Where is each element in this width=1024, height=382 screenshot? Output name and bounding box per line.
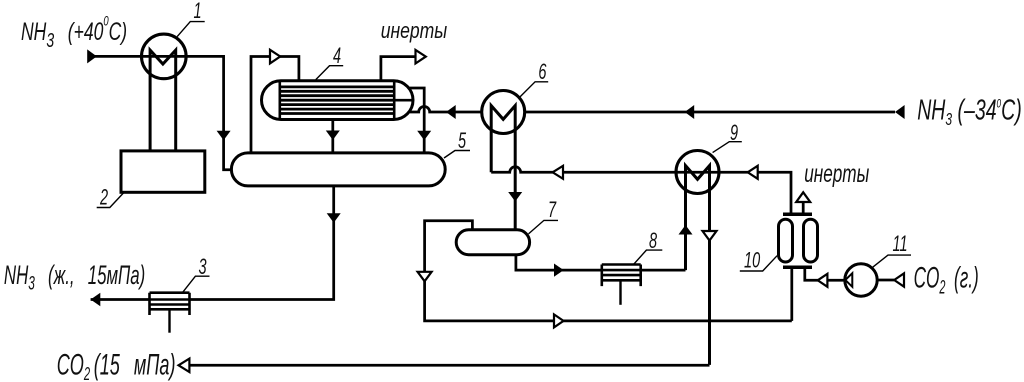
leader label 5 — [444, 151, 470, 159]
flow arrow open up inerts — [796, 192, 810, 202]
compressor 11 inner triangle — [845, 273, 852, 287]
svg-text:NH3 (–340C): NH3 (–340C) — [917, 95, 1022, 130]
wire flash drum 7 top loop to bottom recycle — [425, 221, 792, 321]
heat exchanger 6 circle — [482, 91, 525, 134]
condenser 4 right cap split line — [394, 99, 413, 102]
wire inerts stub on column 10 — [802, 202, 805, 214]
svg-text:11: 11 — [893, 231, 908, 256]
leader label 9 — [713, 142, 742, 153]
flow arrow filled down condenser to separator — [326, 131, 340, 141]
reducer 8 body — [602, 265, 641, 287]
wire NH3 -34C line from condenser 4 with hop over vertical — [410, 107, 482, 113]
flow arrow open right on bottom recycle — [554, 314, 564, 327]
flow arrow open down on loop — [418, 272, 432, 282]
svg-text:8: 8 — [649, 228, 658, 253]
condenser 4 left tube sheet — [278, 81, 281, 120]
flow arrow filled left mid NH3 line — [685, 105, 695, 119]
wire recycle line y172 from exchanger 6 elbow to column 10 with hop — [491, 167, 791, 215]
adsorber column 10 left capsule — [779, 219, 793, 262]
leader label 3 — [182, 276, 209, 293]
compressor 11 circle — [845, 264, 877, 296]
heat exchanger 6 coil M with legs — [491, 106, 515, 230]
tank 2 — [121, 151, 205, 192]
svg-text:инерты: инерты — [804, 159, 869, 188]
svg-text:CO2 (15 мПа): CO2 (15 мПа) — [57, 349, 176, 382]
leader label 8 — [634, 250, 663, 264]
svg-text:9: 9 — [730, 120, 738, 145]
flow arrow open left CO2 inlet — [894, 273, 904, 286]
wire through heat exchanger 1 to right elbow — [142, 56, 232, 169]
svg-text:1: 1 — [194, 0, 202, 23]
leader label 7 — [529, 220, 559, 234]
position number texts — [99, 0, 907, 279]
wire separator 5 bottom to reducer 3 — [190, 186, 334, 300]
flow arrow filled left into condenser 4 — [446, 105, 456, 119]
leader label 4 — [316, 66, 343, 80]
flow arrow filled down into flash drum 7 — [508, 192, 522, 202]
svg-text:6: 6 — [538, 59, 547, 84]
flow arrow open left into exchanger 9 — [748, 166, 758, 179]
svg-text:4: 4 — [333, 43, 341, 68]
heat exchanger 9 circle — [676, 151, 719, 194]
leader label 10 — [740, 256, 777, 271]
flow arrow open down from exchanger 9 — [703, 231, 717, 241]
wire CO2 gas inlet — [877, 279, 894, 282]
leader label 6 — [520, 82, 548, 97]
svg-text:7: 7 — [548, 197, 557, 222]
leader label 2 — [97, 192, 124, 207]
reducer 3 body — [150, 293, 190, 315]
flow arrow filled left at NH3 -34C label — [895, 105, 905, 119]
heat exchanger 1 circle U1 — [142, 34, 187, 79]
svg-text:NH3 (ж., 15мПа): NH3 (ж., 15мПа) — [4, 260, 145, 294]
condenser 4 tubes — [280, 87, 394, 114]
flow arrow open right on riser — [270, 50, 280, 64]
wire reducer 8 to exchanger 9 left leg — [641, 269, 686, 272]
flow arrow open right inerts outlet — [416, 50, 426, 64]
svg-text:3: 3 — [199, 254, 208, 279]
heat exchanger 1 coil M and legs to tank 2 — [150, 50, 176, 151]
flow arrow filled right on NH3 inlet — [87, 49, 97, 63]
condenser 4 right tube sheet — [393, 81, 396, 120]
wire NH3 +40C inlet to heat exchanger 1 — [88, 55, 142, 58]
flow arrow filled down into separator 5 left inlet — [217, 131, 231, 141]
svg-text:10: 10 — [744, 247, 761, 272]
wire compressor 11 to column 10 — [805, 267, 845, 280]
wire CO2 15MPa product line — [189, 364, 709, 367]
wire column 10 bottom to recycle — [790, 267, 793, 321]
svg-text:5: 5 — [458, 128, 467, 153]
svg-text:CO2 (г.): CO2 (г.) — [914, 262, 979, 299]
svg-text:инерты: инерты — [381, 19, 448, 44]
flow arrow filled right to reducer 8 — [554, 264, 564, 277]
flow arrow open left on recycle line — [553, 166, 563, 179]
adsorber column 10 right capsule — [804, 219, 818, 262]
leader lines for position labels — [97, 22, 911, 293]
wire NH3 -34C main line circle 6 to right edge — [525, 111, 895, 114]
svg-text:NH3 (+400C): NH3 (+400C) — [21, 14, 127, 52]
flow arrow open left into column 10 — [818, 274, 828, 287]
reducer 3 stem — [168, 309, 170, 332]
wire condenser 4 right cap top to separator 5 — [409, 88, 425, 153]
flow arrow open left CO2 product — [179, 359, 190, 372]
flow arrow filled down right nozzle — [417, 131, 431, 141]
flow arrow filled down from separator 5 — [327, 213, 341, 223]
wire inerts outlet from condenser 4 — [381, 57, 416, 81]
flash drum 7 — [456, 230, 529, 255]
adsorber column 10 bottom bar — [783, 266, 812, 270]
wire NH3 liquid product line — [91, 298, 150, 301]
wire condenser 4 bottom nozzle to separator 5 — [331, 120, 334, 153]
leader label 1 — [177, 22, 205, 37]
adsorber column 10 top bar — [783, 213, 812, 217]
wire separator 5 to condenser 4 top left — [251, 57, 299, 153]
leader label 11 — [872, 255, 911, 268]
svg-text:2: 2 — [99, 184, 108, 209]
heat exchanger 9 coil M with legs — [686, 166, 710, 365]
wire flash drum 7 bottom to reducer 8 — [516, 255, 602, 270]
flow arrow filled left NH3 product — [91, 293, 101, 306]
separator vessel 5 — [231, 153, 445, 186]
reducer 8 stem — [619, 280, 621, 305]
condenser 4 shell — [262, 81, 414, 120]
flow arrow filled up into exchanger 9 — [679, 225, 693, 235]
